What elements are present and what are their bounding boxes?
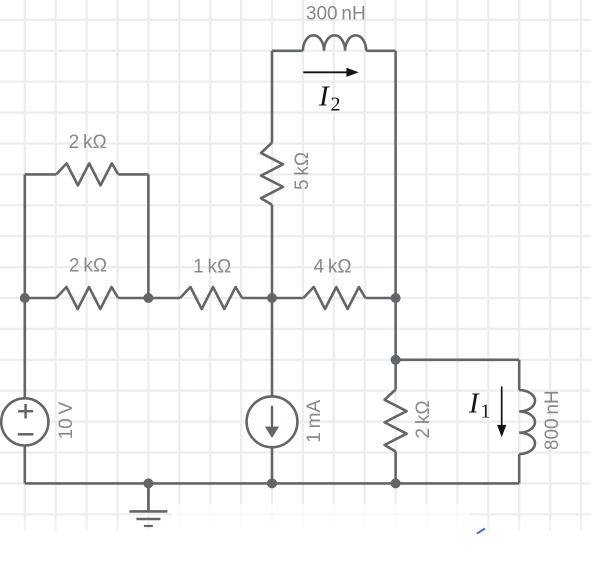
svg-text:300 nH: 300 nH	[306, 4, 366, 25]
svg-text:1 mA: 1 mA	[304, 400, 325, 443]
svg-text:10 V: 10 V	[56, 401, 77, 439]
svg-text:1 kΩ: 1 kΩ	[193, 257, 231, 278]
svg-text:800 nH: 800 nH	[542, 390, 563, 450]
svg-text:1: 1	[481, 401, 491, 423]
svg-text:I: I	[318, 80, 330, 112]
svg-text:2 kΩ: 2 kΩ	[69, 132, 107, 153]
svg-text:5 kΩ: 5 kΩ	[292, 152, 313, 190]
svg-text:4 kΩ: 4 kΩ	[313, 257, 351, 278]
svg-text:2: 2	[331, 94, 341, 116]
svg-text:2 kΩ: 2 kΩ	[69, 255, 107, 276]
svg-text:2 kΩ: 2 kΩ	[413, 400, 434, 438]
svg-text:I: I	[468, 388, 480, 420]
